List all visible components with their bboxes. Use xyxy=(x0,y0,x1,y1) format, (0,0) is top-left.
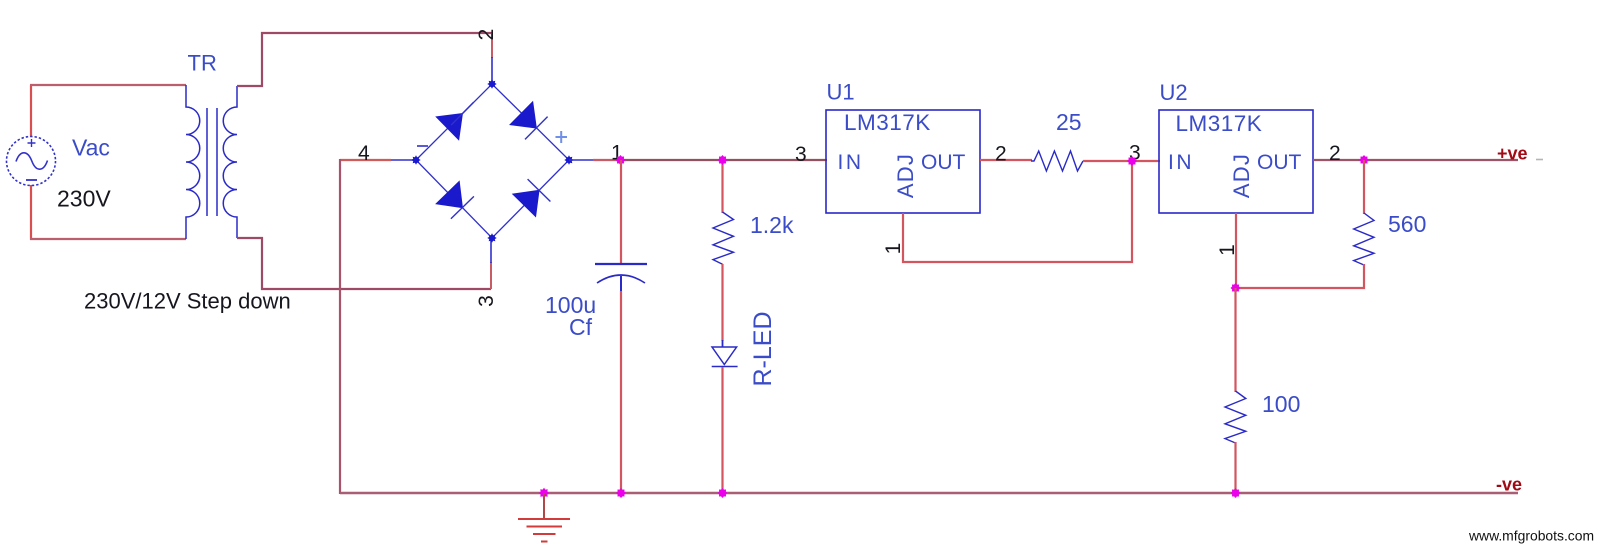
wire LED bottom lead xyxy=(721,367,723,494)
wire bridge pin4 left xyxy=(390,159,416,161)
bridge plus label xyxy=(556,131,568,143)
svg-text:100: 100 xyxy=(1262,391,1300,417)
ground symbol xyxy=(518,519,570,542)
wire R1 top lead xyxy=(721,160,723,213)
node square bridge top xyxy=(487,79,496,88)
wire main rail node1 to U1 xyxy=(620,159,827,161)
node square bridge left xyxy=(411,155,420,164)
wire R25 to node3 xyxy=(1083,160,1160,162)
svg-text:2: 2 xyxy=(475,29,498,41)
wire R100 bottom lead xyxy=(1234,442,1236,494)
transformer TR secondary winding xyxy=(223,86,237,238)
bridge pin2 stub xyxy=(491,57,493,82)
svg-text:www.mfgrobots.com: www.mfgrobots.com xyxy=(1468,528,1594,544)
wire U2 ADJ down xyxy=(1235,213,1237,289)
regulator U1 LM317K box xyxy=(826,110,980,213)
wire AC loop top horizontal xyxy=(30,84,186,86)
capacitor Cf stub xyxy=(620,276,622,292)
capacitor Cf top plate xyxy=(595,263,647,265)
svg-text:3: 3 xyxy=(475,295,498,307)
svg-text:LM317K: LM317K xyxy=(844,110,931,135)
svg-text:Cf: Cf xyxy=(569,314,593,340)
cursor dash xyxy=(1536,159,1543,161)
svg-text:560: 560 xyxy=(1388,211,1426,237)
wire secondary top stub xyxy=(237,33,492,86)
diode D1 top-left xyxy=(436,114,462,140)
transformer TR core xyxy=(207,108,217,216)
LED D5 cathode bar xyxy=(712,366,738,368)
node dot gnd xyxy=(539,488,549,498)
svg-text:1: 1 xyxy=(1216,244,1239,256)
svg-text:TR: TR xyxy=(188,51,217,76)
svg-text:Vac: Vac xyxy=(72,135,110,161)
svg-text:1.2k: 1.2k xyxy=(750,212,794,238)
wire 560 top lead xyxy=(1363,160,1365,214)
wire vertical net4 down xyxy=(339,159,341,494)
diode D4 bottom-right xyxy=(513,190,539,216)
svg-text:OUT: OUT xyxy=(1257,151,1302,174)
wire cap bottom lead xyxy=(620,291,622,494)
wire adj node to R100 xyxy=(1234,288,1236,392)
regulator U2 LM317K box xyxy=(1159,110,1313,213)
wire secondary bottom stub xyxy=(237,238,491,289)
bridge pin3 stub xyxy=(490,240,492,263)
svg-text:230V/12V Step down: 230V/12V Step down xyxy=(84,289,291,314)
node dot out xyxy=(1359,155,1369,165)
svg-text:IN: IN xyxy=(1168,151,1194,174)
node square bridge bottom xyxy=(487,233,496,242)
wire U1 ADJ loop xyxy=(903,161,1132,262)
svg-text:2: 2 xyxy=(995,143,1007,166)
diode D3 bottom-left xyxy=(436,181,462,207)
wire 560 bottom to ADJ node xyxy=(1235,264,1364,288)
AC source V1 circle xyxy=(7,137,56,186)
wire bridge pin2 drop xyxy=(491,33,493,58)
wire R1 to LED xyxy=(721,264,723,341)
LED D5 anode stub xyxy=(722,340,724,347)
node dot R branch xyxy=(718,155,728,165)
AC source sine wave xyxy=(16,153,48,169)
wire AC loop bottom horizontal xyxy=(30,238,186,240)
svg-text:3: 3 xyxy=(795,143,807,166)
bridge rectifier edges xyxy=(416,84,569,238)
bridge minus label xyxy=(417,145,428,147)
svg-text:R-LED: R-LED xyxy=(749,311,777,386)
node dot 1 xyxy=(616,155,626,165)
resistor R4 100 xyxy=(1225,391,1246,443)
LED D5 triangle xyxy=(712,347,737,365)
svg-text:LM317K: LM317K xyxy=(1176,111,1263,136)
svg-text:IN: IN xyxy=(838,151,864,174)
node dot led bottom xyxy=(718,488,728,498)
svg-text:1: 1 xyxy=(882,243,905,255)
svg-text:25: 25 xyxy=(1056,109,1082,135)
svg-text:2: 2 xyxy=(1329,142,1341,165)
wire cap top lead xyxy=(620,160,622,263)
svg-text:230V: 230V xyxy=(57,186,111,212)
svg-text:OUT: OUT xyxy=(921,151,966,174)
wire AC loop bottom vertical xyxy=(30,185,32,240)
AC source plus xyxy=(28,139,36,147)
svg-text:ADJ: ADJ xyxy=(893,153,918,198)
node dot 3 xyxy=(1127,156,1137,166)
svg-text:U1: U1 xyxy=(827,80,855,105)
svg-text:ADJ: ADJ xyxy=(1229,153,1254,198)
wire bottom rail xyxy=(340,492,1518,494)
wire AC loop top vertical xyxy=(30,85,32,137)
AC source minus xyxy=(26,179,37,181)
wire bridge pin1 right xyxy=(569,159,594,161)
svg-text:-ve: -ve xyxy=(1496,475,1522,495)
node square bridge right xyxy=(564,155,573,164)
capacitor Cf bottom plate arc xyxy=(597,275,645,283)
transformer TR primary winding xyxy=(186,85,200,239)
svg-text:4: 4 xyxy=(358,142,370,165)
svg-text:+ve: +ve xyxy=(1497,144,1528,164)
resistor R2 25 xyxy=(1031,151,1083,171)
diode D2 top-right xyxy=(510,102,536,128)
resistor R1 1.2k xyxy=(713,212,734,264)
node dot cap bottom xyxy=(616,488,626,498)
wire bridge pin3 rise xyxy=(490,262,492,289)
ground stub xyxy=(543,493,545,519)
resistor R3 560 xyxy=(1354,213,1374,265)
wire U2 out to +ve xyxy=(1313,159,1518,161)
node dot r100 bottom xyxy=(1231,488,1241,498)
svg-text:U2: U2 xyxy=(1160,80,1188,105)
wire U1 out to R25 xyxy=(980,159,1032,161)
node dot adj xyxy=(1231,283,1241,293)
